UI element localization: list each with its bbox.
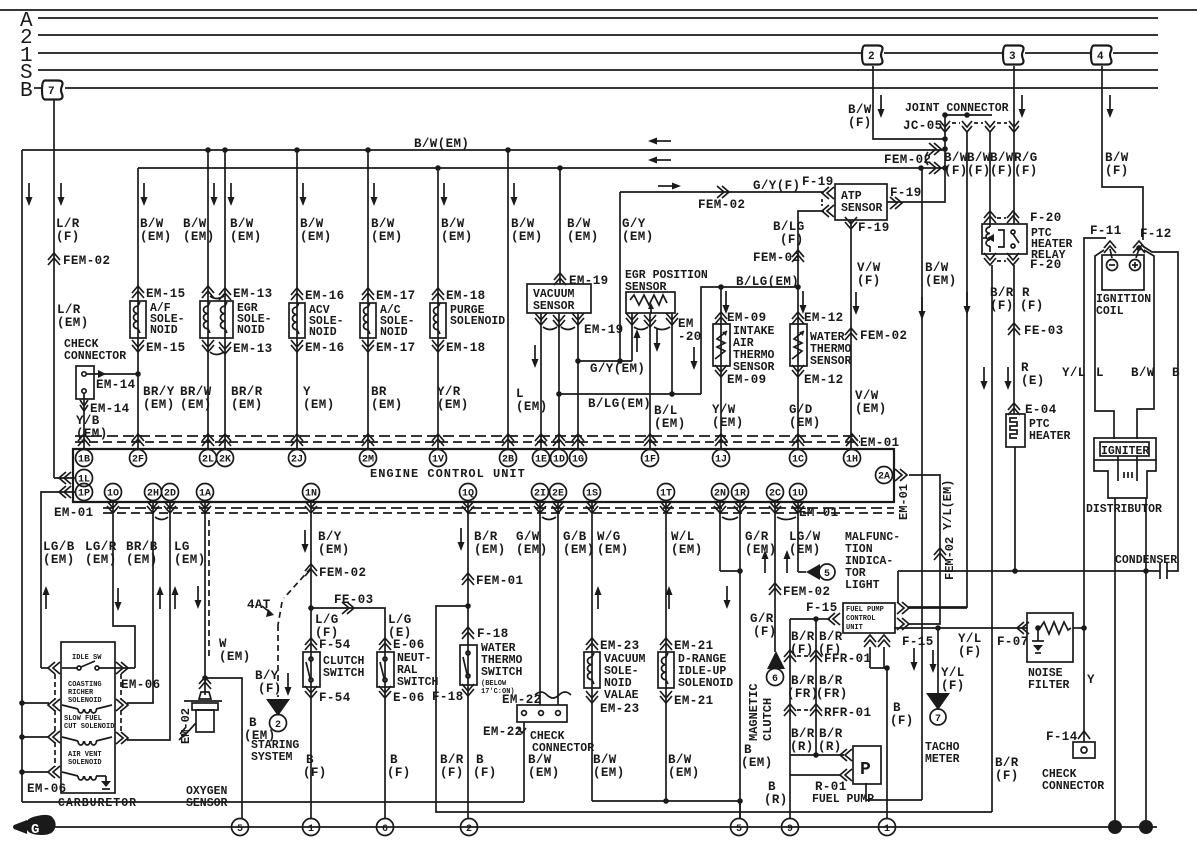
svg-text:SYSTEM: SYSTEM <box>251 751 293 764</box>
svg-text:(F): (F) <box>1020 299 1044 313</box>
connector tab 2 on line 1 <box>862 46 883 65</box>
ECU pin 1O <box>105 484 122 501</box>
noise filter <box>1027 613 1095 692</box>
svg-text:R: R <box>1021 361 1029 375</box>
svg-text:4: 4 <box>1097 51 1104 63</box>
svg-text:(EM): (EM) <box>567 230 599 244</box>
ECU pin 1N <box>303 484 320 501</box>
PTC heater <box>1006 414 1071 571</box>
svg-text:-20: -20 <box>678 330 702 344</box>
svg-text:FILTER: FILTER <box>1028 679 1070 692</box>
svg-text:(EM): (EM) <box>474 543 506 557</box>
svg-text:1E: 1E <box>535 455 547 466</box>
svg-text:5: 5 <box>824 569 830 580</box>
svg-text:B/W(EM): B/W(EM) <box>414 137 469 151</box>
svg-text:B/W: B/W <box>668 753 692 767</box>
svg-text:(EM): (EM) <box>230 230 262 244</box>
svg-text:Y/L: Y/L <box>941 666 965 680</box>
svg-text:(F): (F) <box>753 625 777 639</box>
svg-text:(F): (F) <box>387 766 411 780</box>
svg-text:B/W: B/W <box>300 217 324 231</box>
svg-text:ENGINE CONTROL UNIT: ENGINE CONTROL UNIT <box>370 467 526 481</box>
svg-text:Y/L: Y/L <box>958 632 982 646</box>
svg-text:(EM): (EM) <box>925 274 957 288</box>
svg-text:(EM): (EM) <box>318 543 350 557</box>
ECU pin 2L <box>202 434 214 446</box>
svg-text:B/W: B/W <box>593 753 617 767</box>
svg-text:2K: 2K <box>219 455 231 466</box>
svg-text:1J: 1J <box>715 455 727 466</box>
ECU pin 1P <box>76 484 93 501</box>
wire from tab 7 <box>53 100 55 478</box>
svg-text:(EM): (EM) <box>654 417 686 431</box>
svg-text:G/Y(F): G/Y(F) <box>753 179 800 193</box>
svg-text:P: P <box>860 760 871 780</box>
svg-text:(EM): (EM) <box>597 543 629 557</box>
ECU pin 1L <box>76 470 93 487</box>
distributor body <box>1086 456 1162 516</box>
svg-text:B/R: B/R <box>791 727 815 741</box>
svg-text:6: 6 <box>382 824 388 835</box>
wire 2F A/F solenoid <box>130 168 186 449</box>
svg-text:(F): (F) <box>56 230 80 244</box>
svg-text:IDLE SW: IDLE SW <box>72 654 102 662</box>
svg-text:(FR): (FR) <box>787 687 819 701</box>
connector tab 3 on line 1 <box>1003 46 1024 65</box>
svg-text:SWITCH: SWITCH <box>397 676 439 689</box>
svg-text:1C: 1C <box>792 455 804 466</box>
svg-text:Y: Y <box>303 385 311 399</box>
svg-text:EM-21: EM-21 <box>674 639 714 653</box>
svg-text:B: B <box>893 701 901 715</box>
ECU pin 1D <box>553 434 565 446</box>
svg-text:B/W: B/W <box>848 103 872 117</box>
svg-text:(EM): (EM) <box>174 553 206 567</box>
svg-text:NOID: NOID <box>380 326 408 339</box>
ECU pin 1E <box>535 434 547 446</box>
Y/L wire from F-11 <box>1062 238 1106 628</box>
svg-text:Y/L: Y/L <box>1062 366 1086 380</box>
svg-text:2J: 2J <box>291 455 303 466</box>
svg-text:EM-17: EM-17 <box>376 341 416 355</box>
svg-text:2: 2 <box>466 824 472 835</box>
svg-text:B/Y: B/Y <box>255 669 279 683</box>
svg-text:EM-15: EM-15 <box>146 287 186 301</box>
svg-text:(EM): (EM) <box>303 398 335 412</box>
svg-text:Y/B: Y/B <box>76 414 100 428</box>
svg-text:LG: LG <box>174 540 190 554</box>
svg-text:B/W: B/W <box>511 217 535 231</box>
svg-text:(EM): (EM) <box>563 543 595 557</box>
svg-text:(EM): (EM) <box>516 400 548 414</box>
svg-text:(EM): (EM) <box>219 650 251 664</box>
solenoid PURGE <box>430 303 446 338</box>
ECU pin 1J <box>715 434 727 446</box>
svg-text:(F): (F) <box>440 766 464 780</box>
svg-text:(EM): (EM) <box>855 402 887 416</box>
svg-text:(EM): (EM) <box>511 230 543 244</box>
bottom frame line <box>22 801 524 803</box>
svg-text:(EM): (EM) <box>593 766 625 780</box>
svg-text:(EM): (EM) <box>183 230 215 244</box>
svg-text:EM-01: EM-01 <box>860 436 900 450</box>
svg-text:2: 2 <box>275 720 281 731</box>
vacuum sensor <box>516 165 624 449</box>
svg-text:EM-23: EM-23 <box>600 702 640 716</box>
top hatch band <box>75 435 860 437</box>
svg-text:LG/B: LG/B <box>43 540 75 554</box>
svg-text:R-01: R-01 <box>815 780 847 794</box>
solenoid A/F <box>130 301 146 338</box>
svg-text:SWITCH: SWITCH <box>323 667 365 680</box>
ECU pin 2A <box>876 467 893 484</box>
svg-text:E-06: E-06 <box>393 691 425 705</box>
svg-text:B/W: B/W <box>528 753 552 767</box>
wire 2D from slow fuel cut <box>127 500 170 740</box>
B/W(EM) right wire x=922 to fuel pump <box>866 168 957 800</box>
wire 1O to idle switch <box>113 500 135 668</box>
svg-text:5: 5 <box>237 824 243 835</box>
svg-text:EM-13: EM-13 <box>233 342 273 356</box>
svg-text:2F: 2F <box>132 455 144 466</box>
svg-text:B: B <box>476 753 484 767</box>
svg-text:B/W: B/W <box>230 217 254 231</box>
svg-text:EM-01: EM-01 <box>54 506 94 520</box>
svg-text:(F): (F) <box>473 766 497 780</box>
svg-text:RFR-01: RFR-01 <box>824 706 871 720</box>
svg-text:2: 2 <box>868 51 875 63</box>
svg-text:EM-12: EM-12 <box>804 373 844 387</box>
wire 967 long B/W(F) <box>908 132 971 607</box>
svg-text:(E): (E) <box>1021 374 1045 388</box>
svg-text:B/W: B/W <box>925 261 949 275</box>
svg-text:B/W: B/W <box>441 217 465 231</box>
wavy joins on bottom band chevron pairs <box>155 517 168 520</box>
ground bus numbered circles <box>232 819 249 836</box>
svg-text:Y: Y <box>1087 673 1095 687</box>
svg-text:B/W: B/W <box>967 151 991 165</box>
svg-text:L/G: L/G <box>388 613 412 627</box>
svg-text:FUEL PUMP: FUEL PUMP <box>812 793 874 806</box>
1T D-range idle-up solenoid <box>658 500 733 804</box>
svg-text:B: B <box>20 80 33 103</box>
svg-text:(EM): (EM) <box>143 398 175 412</box>
wire 2B <box>505 147 542 449</box>
FPCU bottom pins <box>864 635 876 647</box>
svg-text:CUT SOLENOID: CUT SOLENOID <box>64 723 114 731</box>
svg-text:G/Y(EM): G/Y(EM) <box>590 362 645 376</box>
bus line A <box>20 10 1158 33</box>
svg-text:FEM-02: FEM-02 <box>860 329 907 343</box>
svg-text:(R): (R) <box>790 740 814 754</box>
svg-text:EM-18: EM-18 <box>446 341 486 355</box>
svg-text:COASTING: COASTING <box>68 681 102 689</box>
svg-text:B: B <box>744 743 752 757</box>
ATP sensor <box>753 115 945 449</box>
2C magnetic clutch <box>745 500 830 741</box>
FEM-02 break on tab7 wire <box>48 253 60 265</box>
svg-text:F-07: F-07 <box>997 635 1029 649</box>
bottom hatch band <box>103 507 894 509</box>
svg-text:B/W: B/W <box>1131 366 1155 380</box>
svg-text:(EM): (EM) <box>622 230 654 244</box>
wire 2J ACV solenoid <box>289 147 345 449</box>
wire stub from 736 junction <box>739 801 741 819</box>
svg-text:EM-19: EM-19 <box>569 274 609 288</box>
svg-text:B: B <box>1172 366 1180 380</box>
EGR position sensor <box>625 269 708 449</box>
svg-text:EM-22: EM-22 <box>483 725 523 739</box>
arrow on left edge <box>26 183 33 206</box>
svg-text:V/W: V/W <box>855 389 879 403</box>
1S vacuum solenoid valve <box>584 500 740 801</box>
svg-text:SLOW FUEL: SLOW FUEL <box>64 715 102 723</box>
svg-text:B/Y: B/Y <box>318 530 342 544</box>
big junction dots on ground bus <box>1108 820 1122 834</box>
svg-text:1D: 1D <box>553 455 565 466</box>
svg-text:7: 7 <box>48 86 55 98</box>
svg-text:FEM-02: FEM-02 <box>884 153 931 167</box>
svg-text:COIL: COIL <box>1096 305 1124 318</box>
G/Y(F) line to ATP <box>620 175 834 212</box>
svg-text:2C: 2C <box>769 489 781 500</box>
svg-text:(R): (R) <box>764 793 788 807</box>
svg-text:EM-16: EM-16 <box>305 341 345 355</box>
svg-text:AIR VENT: AIR VENT <box>68 751 102 759</box>
svg-text:Y/L(EM): Y/L(EM) <box>941 480 955 530</box>
svg-text:G/Y: G/Y <box>622 217 646 231</box>
svg-text:B/R: B/R <box>791 630 815 644</box>
wire 2M A/C solenoid <box>360 147 416 449</box>
svg-text:EM-15: EM-15 <box>146 341 186 355</box>
1P exit wire <box>41 492 75 664</box>
svg-text:(F): (F) <box>941 679 965 693</box>
ECU pin 2E <box>550 484 567 501</box>
bus line 2 <box>20 27 1158 50</box>
ECU pin 2J <box>291 434 303 446</box>
svg-text:B/LG(EM): B/LG(EM) <box>588 397 651 411</box>
svg-text:(F): (F) <box>990 299 1014 313</box>
svg-text:(EM): (EM) <box>671 543 703 557</box>
arrow on tab7 wire <box>58 183 65 206</box>
svg-text:NOID: NOID <box>309 326 337 339</box>
svg-text:F-15: F-15 <box>902 635 934 649</box>
ECU pin 1C <box>792 434 804 446</box>
svg-text:LIGHT: LIGHT <box>845 579 880 592</box>
svg-text:FEM-02: FEM-02 <box>63 254 110 268</box>
svg-text:LG/R: LG/R <box>85 540 117 554</box>
end of bus1/bus2 right chevrons <box>884 143 948 174</box>
svg-text:(BELOW: (BELOW <box>481 680 507 688</box>
solenoid ACV <box>289 303 305 338</box>
svg-text:B: B <box>390 753 398 767</box>
svg-text:CONTROL: CONTROL <box>846 615 875 623</box>
svg-text:F-19: F-19 <box>858 221 890 235</box>
F-14 check connector <box>995 628 1104 793</box>
svg-text:SENSOR: SENSOR <box>533 300 575 313</box>
svg-text:NOID: NOID <box>237 324 265 337</box>
svg-text:(FR): (FR) <box>816 687 848 701</box>
joint connector JC-05 <box>903 102 1019 133</box>
svg-text:B/W: B/W <box>371 217 395 231</box>
svg-text:(EM): (EM) <box>371 398 403 412</box>
svg-text:EM-21: EM-21 <box>674 694 714 708</box>
svg-text:2B: 2B <box>502 455 514 466</box>
svg-text:E-06: E-06 <box>393 638 425 652</box>
G/Y(EM) net to EGR sensor <box>575 192 653 376</box>
svg-text:(F): (F) <box>890 714 914 728</box>
svg-text:UNIT: UNIT <box>846 624 863 632</box>
EM-22 check connector <box>483 500 595 802</box>
svg-text:CLUTCH: CLUTCH <box>761 698 775 741</box>
svg-text:(EM): (EM) <box>85 553 117 567</box>
svg-text:JOINT CONNECTOR: JOINT CONNECTOR <box>905 102 1009 115</box>
svg-text:(F): (F) <box>958 645 982 659</box>
svg-text:RICHER: RICHER <box>68 689 94 697</box>
svg-text:2A: 2A <box>878 472 890 483</box>
svg-text:G/W: G/W <box>516 530 540 544</box>
fuel pump <box>790 746 881 806</box>
svg-text:1F: 1F <box>644 455 656 466</box>
svg-text:SENSOR: SENSOR <box>810 355 852 368</box>
svg-text:R/G: R/G <box>1014 151 1038 165</box>
svg-text:BR: BR <box>371 385 387 399</box>
connector tab 4 on line 1 <box>1091 46 1112 65</box>
carburetor box <box>19 642 137 810</box>
svg-text:EM: EM <box>678 317 694 331</box>
svg-text:F-19: F-19 <box>890 186 922 200</box>
svg-text:EM-17: EM-17 <box>376 289 416 303</box>
wire from tab 3 R(F) <box>1005 66 1064 417</box>
B/LG(F) branch <box>798 211 824 287</box>
condenser <box>898 554 1177 603</box>
svg-text:6: 6 <box>772 674 778 685</box>
1U malfunction indicator light <box>784 500 901 592</box>
svg-text:(F): (F) <box>944 164 968 178</box>
ECU pin 1S <box>584 484 601 501</box>
svg-text:(F): (F) <box>990 164 1014 178</box>
svg-text:SOLENOID: SOLENOID <box>68 697 102 705</box>
igniter <box>1094 438 1156 460</box>
svg-text:B/R: B/R <box>819 727 843 741</box>
svg-text:2D: 2D <box>164 489 176 500</box>
ECU pin 2I <box>532 484 549 501</box>
svg-text:(EM): (EM) <box>43 553 75 567</box>
svg-text:FEM-02: FEM-02 <box>319 566 366 580</box>
svg-text:2H: 2H <box>147 489 159 500</box>
svg-text:VALAE: VALAE <box>604 689 639 702</box>
svg-text:IGNITER: IGNITER <box>1101 445 1149 458</box>
svg-text:1P: 1P <box>78 489 90 500</box>
svg-text:(EM): (EM) <box>300 230 332 244</box>
svg-text:1S: 1S <box>586 489 598 500</box>
svg-text:E-04: E-04 <box>1025 403 1057 417</box>
svg-text:METER: METER <box>925 753 960 766</box>
svg-text:FEM-01: FEM-01 <box>476 574 523 588</box>
svg-text:W/G: W/G <box>597 530 621 544</box>
svg-text:FE-03: FE-03 <box>1024 324 1064 338</box>
svg-text:NOID: NOID <box>150 324 178 337</box>
wire from tab 4 to ignition coil <box>1102 66 1143 240</box>
dashed internal verticals <box>54 674 56 700</box>
svg-text:B/R: B/R <box>440 753 464 767</box>
F-07 line to noise filter <box>894 622 1029 673</box>
svg-text:5: 5 <box>736 824 742 835</box>
svg-text:EM-06: EM-06 <box>27 782 67 796</box>
ECU pin 2B <box>502 434 514 446</box>
bus line S <box>20 62 1158 85</box>
water thermo sensor on 1C <box>789 287 852 449</box>
wire 1V purge solenoid <box>430 165 505 449</box>
svg-text:2I: 2I <box>534 489 546 500</box>
ECU pin 1G <box>572 434 584 446</box>
svg-text:L: L <box>1096 366 1104 380</box>
svg-text:RELAY: RELAY <box>1031 249 1066 262</box>
ECU pin 1T <box>658 484 675 501</box>
svg-text:(EM): (EM) <box>371 230 403 244</box>
svg-text:B/R: B/R <box>791 674 815 688</box>
B/LG(EM) net <box>556 275 799 411</box>
outer frame left edge wire <box>21 150 23 802</box>
L and B/W wires coil to igniter <box>1095 250 1155 439</box>
svg-text:(EM): (EM) <box>789 543 821 557</box>
svg-text:F-18: F-18 <box>432 690 464 704</box>
svg-text:EM-09: EM-09 <box>727 311 767 325</box>
svg-text:F-54: F-54 <box>319 638 351 652</box>
svg-text:9: 9 <box>787 824 793 835</box>
ECU pin 1F <box>644 434 656 446</box>
svg-text:B/R: B/R <box>819 674 843 688</box>
svg-text:EM-14: EM-14 <box>96 378 136 392</box>
svg-text:CONNECTOR: CONNECTOR <box>1042 780 1104 793</box>
svg-text:(EM): (EM) <box>231 398 263 412</box>
svg-text:DISTRIBUTOR: DISTRIBUTOR <box>1086 503 1162 516</box>
svg-text:1: 1 <box>884 824 890 835</box>
svg-text:(F): (F) <box>780 233 804 247</box>
svg-text:LG/W: LG/W <box>789 530 821 544</box>
oxygen sensor symbol <box>199 692 211 699</box>
svg-text:V/W: V/W <box>857 261 881 275</box>
svg-text:EM-18: EM-18 <box>446 289 486 303</box>
svg-text:(EM): (EM) <box>789 416 821 430</box>
svg-text:G/R: G/R <box>750 612 774 626</box>
svg-text:B/W: B/W <box>567 217 591 231</box>
ECU pin 2C <box>767 484 784 501</box>
svg-text:(EM): (EM) <box>712 416 744 430</box>
1N clutch switch column <box>302 500 367 819</box>
svg-text:1N: 1N <box>305 489 317 500</box>
svg-text:EM-23: EM-23 <box>600 639 640 653</box>
svg-text:R: R <box>1022 286 1030 300</box>
svg-text:CONDENSER: CONDENSER <box>1115 554 1177 567</box>
ECU box <box>73 449 894 502</box>
svg-text:B/R: B/R <box>995 756 1019 770</box>
svg-text:1V: 1V <box>432 455 444 466</box>
ECU pin 1H <box>846 434 858 446</box>
svg-text:(EM): (EM) <box>57 316 89 330</box>
svg-text:L/G: L/G <box>315 613 339 627</box>
svg-text:JC-05: JC-05 <box>903 119 943 133</box>
bus line B <box>20 80 1158 103</box>
svg-text:Y/R: Y/R <box>437 385 461 399</box>
svg-text:F-12: F-12 <box>1140 227 1172 241</box>
svg-text:EM-01: EM-01 <box>897 484 911 520</box>
solenoid EGR (dual coil) <box>200 301 233 338</box>
svg-text:(F): (F) <box>258 682 282 696</box>
svg-text:CARBURETOR: CARBURETOR <box>58 797 137 810</box>
svg-text:SOLENOID: SOLENOID <box>68 759 102 767</box>
2N 1R pair <box>720 500 773 819</box>
